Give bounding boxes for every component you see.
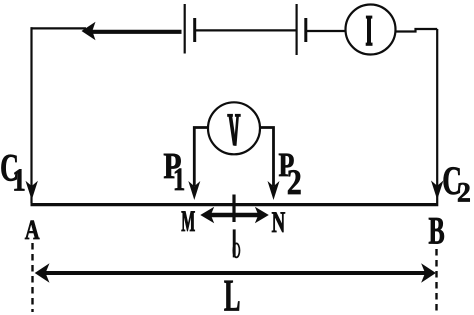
wire ammeter to top-right corner <box>396 29 438 32</box>
contact arrowhead C2 (down onto wire at B side) <box>431 181 443 200</box>
label B <box>429 218 444 244</box>
dashed guide line at A <box>31 243 33 312</box>
contact arrowhead C1 (down onto wire at A side) <box>26 181 38 200</box>
ammeter label I <box>366 16 373 46</box>
jockey contact tick <box>232 195 235 223</box>
label C1 <box>1 155 24 191</box>
probe arrowhead P2 (down) <box>268 181 280 200</box>
battery cell 2 short plate <box>304 18 307 42</box>
current direction arrow (thick wire with left arrowhead) <box>82 22 182 40</box>
label b <box>233 229 239 257</box>
label P1 <box>164 154 184 190</box>
label A <box>25 221 39 239</box>
wire: right vertical side <box>436 29 438 203</box>
label M <box>182 211 195 231</box>
ammeter circle <box>346 5 396 55</box>
voltmeter label V <box>227 114 241 146</box>
wire: left vertical side <box>30 27 32 203</box>
wire between battery cells <box>196 29 296 31</box>
voltmeter circle <box>208 102 260 154</box>
label L <box>224 281 239 311</box>
length arrow b (between M and N) <box>200 207 268 223</box>
probe arrowhead P1 (down) <box>188 181 200 200</box>
length arrow L (between A and B) <box>35 263 436 283</box>
main resistance wire A-B <box>31 203 439 206</box>
label C2 <box>444 167 470 201</box>
battery cell 1 short plate <box>193 18 196 42</box>
battery cell 2 long plate <box>296 4 298 55</box>
wire battery to ammeter <box>307 30 346 32</box>
label N <box>272 212 285 232</box>
wire voltmeter left lead <box>194 128 208 187</box>
dashed guide line at B <box>435 249 437 312</box>
battery cell 1 long plate <box>184 4 186 54</box>
wire: top-left horizontal segment <box>31 27 87 29</box>
wire voltmeter right lead <box>260 128 274 187</box>
label P2 <box>279 154 301 194</box>
